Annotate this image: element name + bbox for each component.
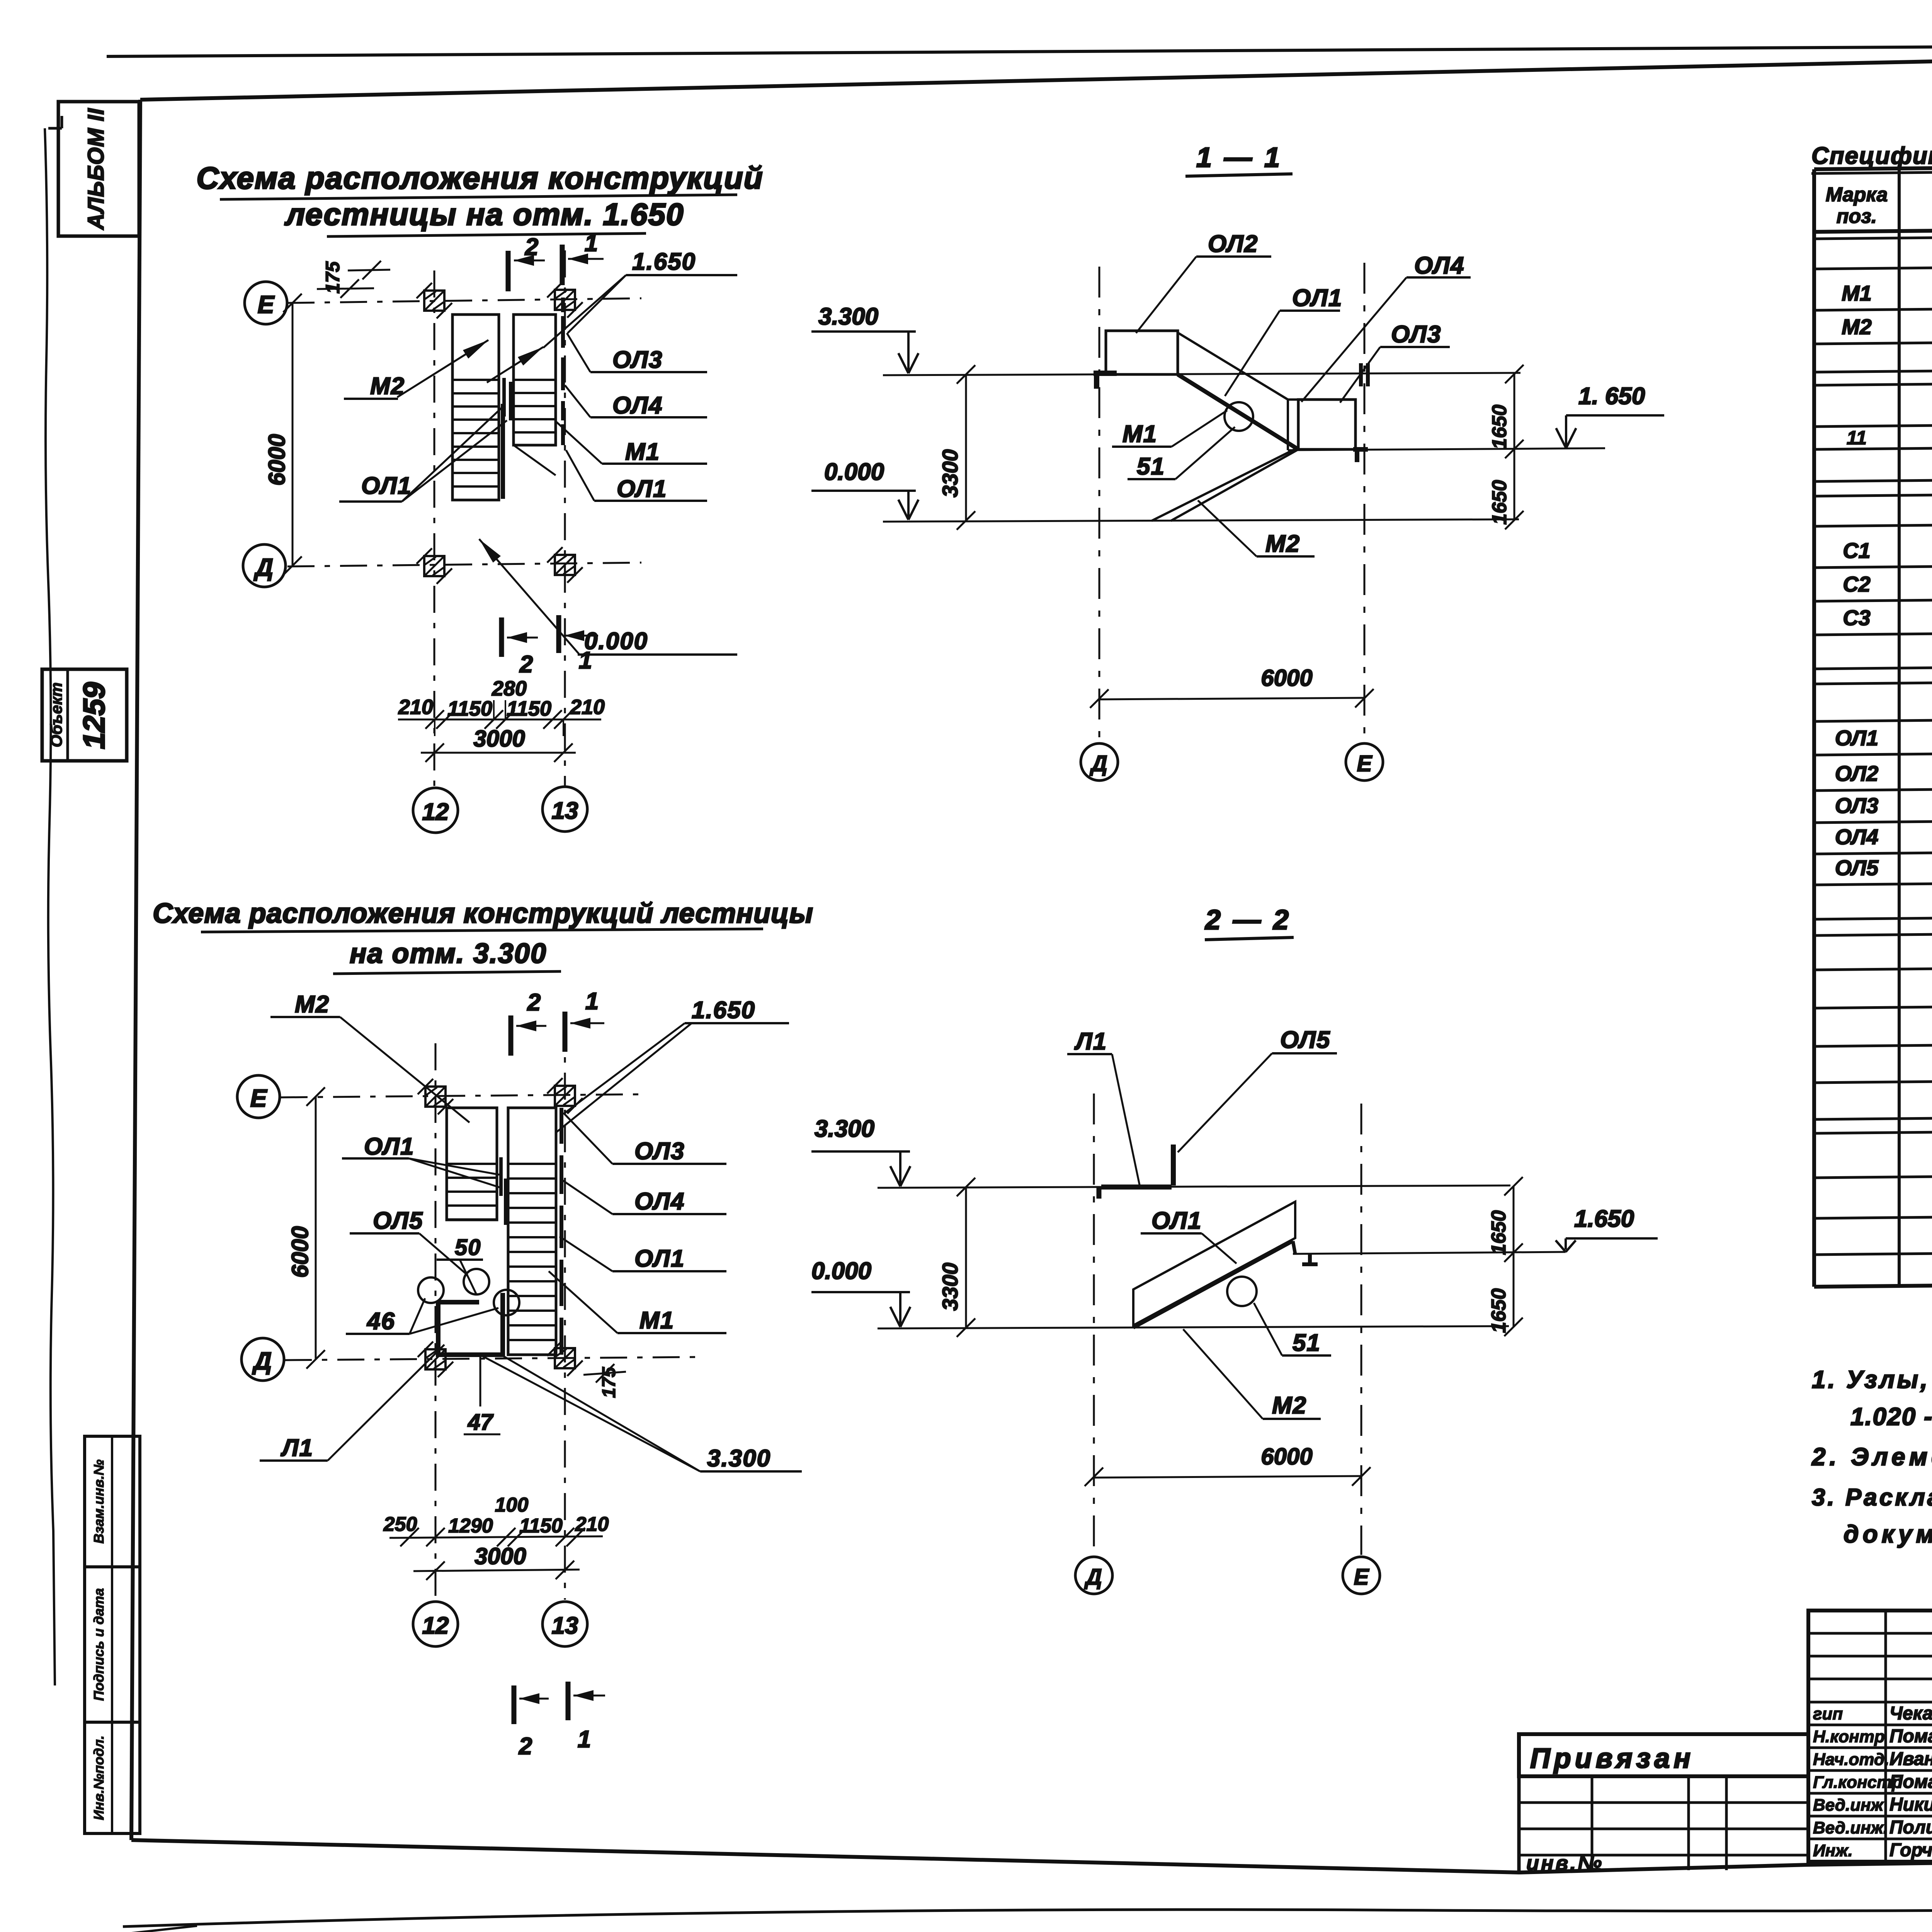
level 0.000 line section 1-1 xyxy=(883,519,1519,522)
svg-text:ОЛ4: ОЛ4 xyxy=(1835,825,1878,849)
level 3.300 line section 1-1 xyxy=(883,373,1520,375)
svg-text:Инж.: Инж. xyxy=(1813,1841,1853,1860)
axis bubble D section 1-1 xyxy=(1081,743,1118,781)
landing slab L1 section 2-2 xyxy=(1101,1185,1172,1190)
svg-text:3000: 3000 xyxy=(473,726,525,752)
svg-text:М1: М1 xyxy=(1122,421,1157,447)
svg-text:2: 2 xyxy=(527,989,541,1016)
svg-text:100: 100 xyxy=(495,1494,529,1516)
svg-text:гип: гип xyxy=(1813,1704,1843,1723)
svg-text:Чекалов: Чекалов xyxy=(1889,1703,1932,1724)
level 1.650 line section 1-1 xyxy=(1288,448,1605,450)
flight M1 plan lower (right) xyxy=(508,1108,556,1355)
axis circle D lower plan xyxy=(241,1338,284,1381)
svg-text:1.650: 1.650 xyxy=(1574,1206,1634,1232)
svg-text:1 — 1: 1 — 1 xyxy=(1196,142,1282,173)
svg-text:1. Узлы, замаркированные на: 1. Узлы, замаркированные на данном листе… xyxy=(1812,1366,1932,1393)
svg-text:2: 2 xyxy=(519,1733,532,1760)
stringer M2 section 2-2 xyxy=(1133,1241,1293,1328)
svg-text:инв.№: инв.№ xyxy=(1526,1852,1604,1875)
svg-text:Схема расположения конструкций: Схема расположения конструкций xyxy=(196,161,763,195)
flight M2 plan (left) xyxy=(452,315,499,500)
dim 3300 section 2-2 xyxy=(965,1187,967,1328)
svg-text:1: 1 xyxy=(579,647,592,674)
axis D line section 2-2 xyxy=(1093,1094,1095,1555)
axis 13 line lower plan xyxy=(564,1020,566,1600)
walk direction arrow right flight xyxy=(487,347,543,383)
svg-text:1. 650: 1. 650 xyxy=(1578,383,1645,410)
handrail OL1 middle bars xyxy=(502,378,506,417)
svg-text:280: 280 xyxy=(492,677,527,700)
svg-text:3.300: 3.300 xyxy=(818,303,878,330)
torn paper left edge xyxy=(45,128,55,1685)
node circles lower plan xyxy=(418,1277,444,1303)
handrail bars middle lower plan xyxy=(499,1157,503,1196)
svg-text:Спецификация к схеме распол: Спецификация к схеме расположения элемен… xyxy=(1811,143,1932,169)
landing 1.650 section 1-1 xyxy=(1298,400,1355,449)
svg-text:1: 1 xyxy=(578,1726,591,1753)
svg-text:Вед.инж.: Вед.инж. xyxy=(1813,1818,1888,1837)
dim 1650x2 section 1-1 xyxy=(1514,374,1515,520)
svg-text:ОЛ1: ОЛ1 xyxy=(617,476,667,502)
axis E line section 1-1 xyxy=(1364,263,1366,743)
section mark 2 bottom lower plan xyxy=(512,1685,517,1724)
svg-text:ОЛ1: ОЛ1 xyxy=(1292,285,1342,311)
svg-text:Н.контр: Н.контр xyxy=(1813,1727,1885,1746)
sheet inner frame left xyxy=(131,100,140,1840)
flight M1 section 1-1 xyxy=(1178,333,1288,400)
axis D line section 1-1 xyxy=(1099,267,1100,743)
svg-text:1650: 1650 xyxy=(1488,1210,1510,1255)
sheet inner frame top xyxy=(140,46,1932,100)
svg-text:Е: Е xyxy=(250,1084,268,1112)
svg-text:1650: 1650 xyxy=(1488,1288,1510,1333)
svg-text:М1: М1 xyxy=(1842,281,1872,305)
svg-text:1: 1 xyxy=(585,988,599,1015)
svg-text:12: 12 xyxy=(422,1612,449,1639)
axis circle E upper plan xyxy=(245,282,287,324)
svg-text:1.650: 1.650 xyxy=(632,248,696,275)
svg-text:2 — 2: 2 — 2 xyxy=(1204,905,1291,935)
svg-text:Никитина: Никитина xyxy=(1889,1794,1932,1815)
svg-text:Вед.инж: Вед.инж xyxy=(1813,1796,1884,1815)
svg-text:2: 2 xyxy=(519,651,533,678)
svg-text:Помазов: Помазов xyxy=(1889,1772,1932,1792)
svg-text:ОЛ3: ОЛ3 xyxy=(1391,321,1441,348)
section mark 2 top lower plan xyxy=(509,1015,514,1056)
handrail OL3 right bar lower (dashed) xyxy=(560,1108,563,1144)
svg-text:Л1: Л1 xyxy=(1074,1028,1107,1055)
axis E line section 2-2 xyxy=(1361,1104,1362,1555)
svg-text:Иванов: Иванов xyxy=(1889,1749,1932,1769)
axis bubble 13 upper plan xyxy=(543,787,587,832)
svg-text:51: 51 xyxy=(1293,1330,1321,1356)
svg-text:Д: Д xyxy=(252,1347,272,1375)
svg-text:С3: С3 xyxy=(1843,605,1871,630)
svg-text:6000: 6000 xyxy=(287,1226,313,1277)
svg-text:лестницы на отм. 1.650: лестницы на отм. 1.650 xyxy=(284,197,684,231)
svg-text:Нач.отд.: Нач.отд. xyxy=(1813,1750,1889,1769)
sheet inner frame bottom xyxy=(131,1840,1932,1872)
svg-text:175: 175 xyxy=(599,1367,619,1398)
section mark 1 bottom upper plan xyxy=(556,615,561,653)
dim 6000 section 1-1 xyxy=(1099,698,1364,699)
svg-text:М1: М1 xyxy=(639,1307,674,1334)
privyazan grid xyxy=(1517,1776,1521,1872)
svg-text:ОЛ4: ОЛ4 xyxy=(1414,252,1464,279)
svg-text:Поликарпова: Поликарпова xyxy=(1889,1817,1932,1838)
svg-text:210: 210 xyxy=(575,1513,609,1536)
svg-text:12: 12 xyxy=(422,799,449,825)
svg-text:250: 250 xyxy=(383,1513,417,1536)
level 1.650 line section 2-2 xyxy=(1293,1252,1566,1254)
svg-text:11: 11 xyxy=(1847,427,1867,449)
railing band OL1 section 2-2 xyxy=(1133,1202,1295,1325)
axis bubble E section 2-2 xyxy=(1343,1557,1380,1594)
svg-text:Е: Е xyxy=(1357,751,1373,776)
svg-text:1150: 1150 xyxy=(507,697,551,720)
svg-text:Л1: Л1 xyxy=(281,1435,313,1461)
dim chain upper plan xyxy=(398,719,601,721)
axis bubble 12 upper plan xyxy=(413,788,458,833)
axis 12 line upper plan xyxy=(434,270,435,787)
landing L1 plan (thick) xyxy=(438,1293,503,1355)
svg-text:Схема расположения конструкций: Схема расположения конструкций лестницы xyxy=(153,898,813,929)
svg-text:Е: Е xyxy=(258,291,275,318)
svg-text:Д: Д xyxy=(253,553,273,581)
svg-text:Инв.№подл.: Инв.№подл. xyxy=(91,1735,107,1820)
axis bubble 13 lower plan xyxy=(543,1602,587,1646)
axis bubble E section 1-1 xyxy=(1346,743,1383,781)
handrail OL3 right bar (dashed) xyxy=(561,298,565,312)
column markers upper plan xyxy=(424,291,444,311)
svg-text:6000: 6000 xyxy=(1261,665,1312,691)
flight M1 plan (right) xyxy=(514,315,556,445)
axis E line upper plan xyxy=(287,298,641,303)
svg-text:13: 13 xyxy=(552,798,578,824)
svg-text:Марка: Марка xyxy=(1826,184,1888,206)
svg-text:М2: М2 xyxy=(1842,315,1872,339)
svg-text:1: 1 xyxy=(585,230,598,257)
torn paper bottom edge xyxy=(123,1910,1932,1927)
svg-text:ОЛ2: ОЛ2 xyxy=(1208,231,1258,257)
svg-text:1.650: 1.650 xyxy=(692,997,755,1024)
svg-text:ОЛ1: ОЛ1 xyxy=(1835,726,1878,750)
column markers lower plan xyxy=(425,1087,446,1107)
svg-text:6000: 6000 xyxy=(264,434,290,485)
svg-text:Подпись и дата: Подпись и дата xyxy=(91,1588,107,1701)
svg-text:50: 50 xyxy=(455,1235,481,1260)
svg-text:3.300: 3.300 xyxy=(815,1116,874,1142)
svg-text:ОЛ4: ОЛ4 xyxy=(612,392,663,419)
landing 3.300 section 1-1 xyxy=(1106,331,1178,374)
dim 3000 upper plan xyxy=(421,752,576,754)
axis bubble D section 2-2 xyxy=(1075,1557,1112,1594)
svg-text:Помазов: Помазов xyxy=(1889,1726,1932,1747)
svg-text:С2: С2 xyxy=(1843,572,1871,596)
svg-text:Объект: Объект xyxy=(47,682,65,747)
svg-text:210: 210 xyxy=(570,696,605,719)
cut line below M1 xyxy=(514,445,556,475)
svg-text:С1: С1 xyxy=(1843,538,1871,563)
svg-text:2: 2 xyxy=(525,234,538,260)
dim 6000 upper plan xyxy=(292,303,294,566)
svg-text:поз.: поз. xyxy=(1837,205,1877,228)
flight M2 section 1-1 xyxy=(1151,448,1297,521)
svg-text:13: 13 xyxy=(552,1612,578,1639)
post OL5 section 2-2 xyxy=(1171,1145,1176,1185)
svg-text:на отм. 3.300: на отм. 3.300 xyxy=(350,938,547,969)
svg-text:3.300: 3.300 xyxy=(707,1445,771,1472)
svg-text:0.000: 0.000 xyxy=(811,1258,871,1284)
svg-text:1650: 1650 xyxy=(1488,480,1511,525)
object stamp box xyxy=(42,669,127,761)
svg-text:Е: Е xyxy=(1354,1565,1370,1590)
axis D line lower plan xyxy=(285,1357,696,1360)
svg-text:ОЛ1: ОЛ1 xyxy=(634,1245,685,1272)
svg-text:6000: 6000 xyxy=(1261,1444,1312,1469)
privyazan box xyxy=(1519,1734,1808,1776)
svg-text:ОЛ5: ОЛ5 xyxy=(373,1207,423,1234)
svg-text:М2: М2 xyxy=(1265,531,1300,557)
svg-text:ОЛ3: ОЛ3 xyxy=(634,1138,685,1165)
torn paper top-left hook xyxy=(48,127,62,130)
svg-text:Гл.констр: Гл.констр xyxy=(1813,1773,1902,1792)
axis D line upper plan xyxy=(287,563,641,566)
svg-text:1259: 1259 xyxy=(77,682,111,749)
hook at 1.650 end section 2-2 xyxy=(1308,1254,1312,1265)
svg-text:ОЛ1: ОЛ1 xyxy=(1151,1207,1202,1234)
svg-text:Горченко: Горченко xyxy=(1889,1840,1932,1861)
lower left stamp column xyxy=(85,1436,140,1833)
flight M2 plan lower (left) xyxy=(447,1108,497,1220)
svg-text:210: 210 xyxy=(398,696,433,719)
svg-text:3300: 3300 xyxy=(938,1263,962,1311)
svg-text:ОЛ5: ОЛ5 xyxy=(1835,855,1879,880)
svg-text:47: 47 xyxy=(468,1410,494,1435)
level 0.000 line section 2-2 xyxy=(878,1326,1509,1328)
album stamp box xyxy=(58,102,139,236)
support bracket left section 1-1 xyxy=(1094,371,1117,376)
svg-text:М2: М2 xyxy=(295,991,330,1018)
svg-text:ОЛ2: ОЛ2 xyxy=(1835,761,1878,786)
svg-text:документ 20ПЗ схемы 3 и 6: документ 20ПЗ схемы 3 и 6 xyxy=(1844,1520,1932,1548)
svg-text:3. Раскладку накладных прост: 3. Раскладку накладных проступей см. 1.0… xyxy=(1812,1484,1932,1511)
axis E line lower plan xyxy=(281,1094,641,1097)
svg-text:0.000: 0.000 xyxy=(584,628,648,655)
axis 12 line lower plan xyxy=(435,1043,437,1600)
dim 3000 lower plan xyxy=(413,1570,580,1571)
svg-text:ОЛ5: ОЛ5 xyxy=(1280,1027,1330,1053)
axis bubble 12 lower plan xyxy=(413,1602,458,1646)
svg-text:М2: М2 xyxy=(1272,1392,1307,1419)
dim 3300 section 1-1 xyxy=(965,374,967,520)
svg-text:1150: 1150 xyxy=(447,697,492,720)
svg-text:М2: М2 xyxy=(370,373,405,400)
svg-text:46: 46 xyxy=(366,1308,395,1335)
svg-text:ОЛ1: ОЛ1 xyxy=(361,473,412,499)
svg-text:2. Элементы каркаса см. КЖ-1: 2. Элементы каркаса см. КЖ-18 xyxy=(1811,1443,1932,1471)
dim 6000 section 2-2 xyxy=(1094,1476,1361,1478)
axis circle E lower plan xyxy=(237,1075,280,1118)
spec table grid xyxy=(1812,169,1816,1287)
svg-text:Д: Д xyxy=(1089,751,1107,776)
level 3.300 line section 2-2 xyxy=(878,1185,1510,1188)
section mark 2 top upper plan xyxy=(506,251,511,291)
node circle 51 section 2-2 xyxy=(1227,1277,1257,1306)
svg-text:1.020 - 1/83 вып. 6-1: 1.020 - 1/83 вып. 6-1 xyxy=(1850,1403,1932,1430)
svg-text:АЛЬБОМ II: АЛЬБОМ II xyxy=(83,108,109,230)
section mark 1 top upper plan xyxy=(560,245,565,285)
svg-text:Д: Д xyxy=(1084,1565,1102,1590)
signature table xyxy=(1808,1611,1932,1862)
dim chain lower plan xyxy=(389,1536,603,1538)
node circle 51 section 1-1 xyxy=(1225,402,1253,431)
outer top sheet line xyxy=(107,43,1932,56)
svg-text:51: 51 xyxy=(1137,453,1165,480)
svg-text:1150: 1150 xyxy=(519,1515,563,1537)
dim 6000 lower plan xyxy=(315,1097,317,1359)
dim 1650x2 section 2-2 xyxy=(1513,1186,1515,1327)
axis 13 line upper plan xyxy=(564,250,566,786)
svg-text:М1: М1 xyxy=(625,439,660,465)
svg-text:ОЛ3: ОЛ3 xyxy=(1835,793,1878,818)
svg-text:ОЛ1: ОЛ1 xyxy=(364,1133,414,1160)
column tie at E section 1-1 xyxy=(1359,363,1363,386)
walk direction arrow M2 leader xyxy=(397,340,488,397)
svg-text:1650: 1650 xyxy=(1488,405,1511,449)
svg-text:ОЛ4: ОЛ4 xyxy=(634,1188,685,1215)
section mark 1 top lower plan xyxy=(563,1012,568,1052)
svg-text:3000: 3000 xyxy=(474,1543,526,1569)
svg-text:3300: 3300 xyxy=(938,449,962,498)
axis circle D upper plan xyxy=(243,544,286,587)
svg-text:1290: 1290 xyxy=(448,1515,493,1537)
svg-text:Взам.инв.№: Взам.инв.№ xyxy=(91,1459,107,1544)
svg-text:ОЛ3: ОЛ3 xyxy=(612,347,663,373)
section mark 1 bottom lower plan xyxy=(566,1682,571,1720)
section mark 2 bottom upper plan xyxy=(499,617,504,657)
svg-text:0.000: 0.000 xyxy=(824,459,884,485)
bracket right section 1-1 xyxy=(1353,447,1368,452)
svg-text:Привязан: Привязан xyxy=(1530,1743,1694,1774)
